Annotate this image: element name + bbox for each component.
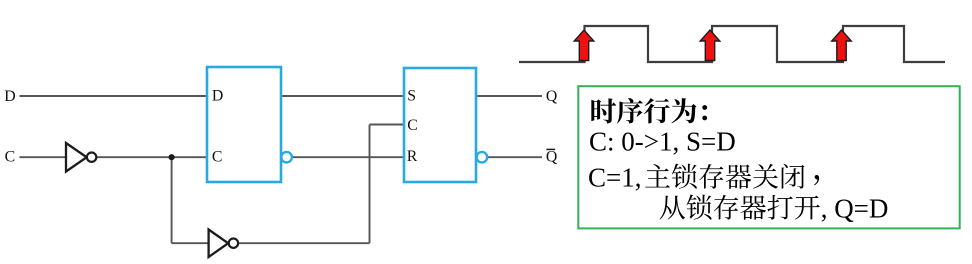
- svg-text:C: C: [5, 149, 16, 166]
- svg-text:D: D: [4, 88, 15, 105]
- svg-text:D: D: [212, 88, 223, 105]
- svg-text:C=1,: C=1,: [588, 163, 642, 193]
- svg-text:Q: Q: [546, 149, 558, 166]
- svg-text:S: S: [407, 88, 416, 105]
- svg-text:C: C: [212, 149, 223, 166]
- svg-text:, Q=D: , Q=D: [821, 194, 889, 224]
- svg-text:C: C: [407, 117, 418, 134]
- svg-text:Q: Q: [546, 88, 558, 105]
- svg-text:C: 0->1, S=D: C: 0->1, S=D: [589, 127, 736, 157]
- svg-text:R: R: [407, 148, 418, 165]
